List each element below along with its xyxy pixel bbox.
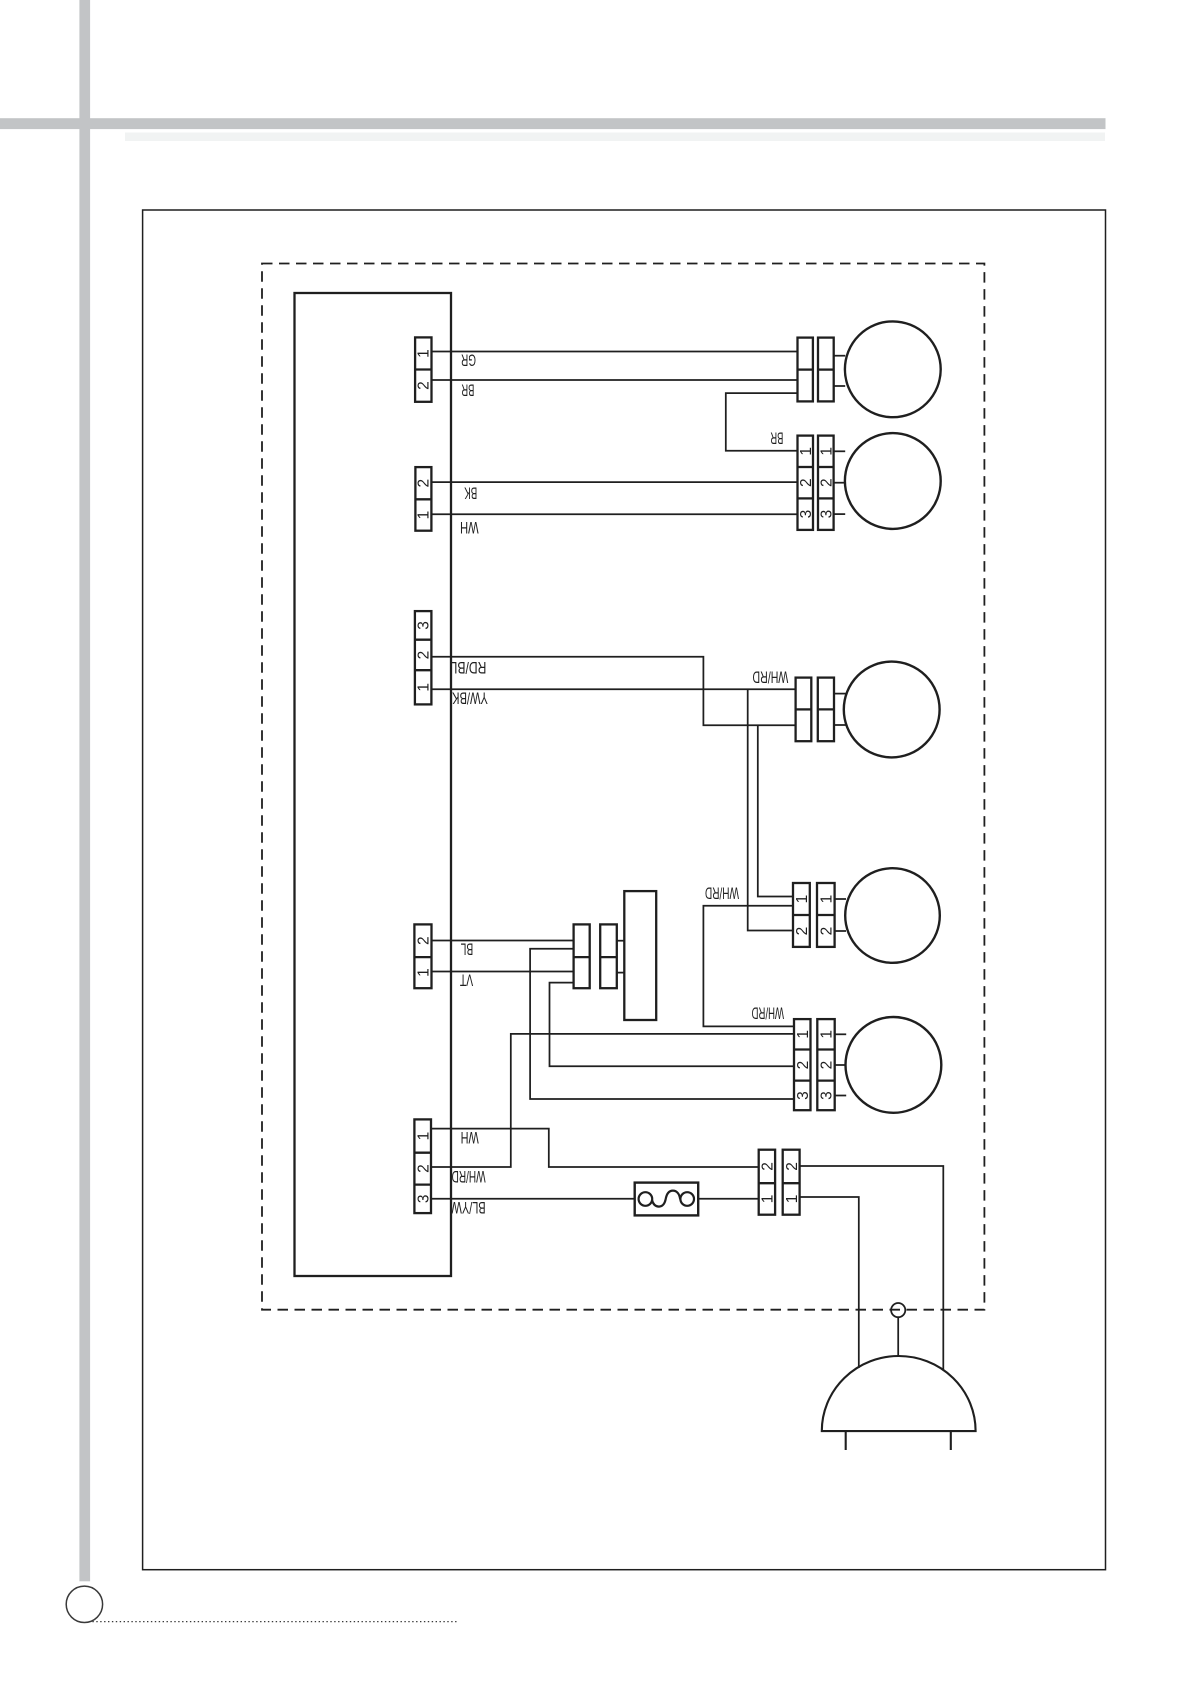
svg-text:1: 1 <box>416 1132 433 1141</box>
page margin gray vertical bar <box>79 0 90 1581</box>
connector M1 left half <box>798 338 813 402</box>
wire BL <box>432 940 574 942</box>
wire WH to mains connector <box>431 1129 759 1167</box>
wire M2 pin3 stub <box>834 513 846 515</box>
wire S1 pin2 stub <box>617 972 625 974</box>
wire branch pressure switch to motor M5 pin3 <box>530 949 794 1099</box>
svg-text:WH: WH <box>460 518 479 536</box>
wire WH/RD link motor M4 pin1 to motor M5 pin1 <box>703 906 794 1027</box>
svg-text:3: 3 <box>818 510 835 519</box>
motor M2 circle <box>845 433 941 529</box>
svg-text:1: 1 <box>798 447 815 456</box>
svg-text:1: 1 <box>795 1030 812 1039</box>
connector CN5 on controller (3-pin) <box>414 1119 431 1213</box>
svg-text:GR: GR <box>461 350 476 368</box>
svg-text:2: 2 <box>818 478 835 487</box>
wire earth stub to plug <box>897 1317 899 1356</box>
svg-text:WH/RD: WH/RD <box>752 667 788 685</box>
wire M1 pin2 stub <box>834 385 846 387</box>
scan ghost strip <box>125 133 1105 142</box>
wire RD/BL <box>431 657 795 725</box>
svg-text:1: 1 <box>760 1195 777 1204</box>
wire WH to motor M2 <box>431 513 797 515</box>
svg-text:WH/RD: WH/RD <box>752 1004 785 1022</box>
svg-text:3: 3 <box>416 621 433 630</box>
svg-text:1: 1 <box>818 895 835 904</box>
svg-text:1: 1 <box>416 349 433 358</box>
svg-text:2: 2 <box>416 479 433 488</box>
svg-text:1: 1 <box>794 895 811 904</box>
wire M5 pin1 stub <box>835 1033 847 1035</box>
wire VT <box>432 971 574 973</box>
wire M2 pin1 stub <box>834 450 846 452</box>
motor M1 circle <box>845 321 941 417</box>
mains connector CN6 right half (2-pin) <box>783 1150 800 1215</box>
connector M2 right half <box>818 436 834 530</box>
svg-text:RD/BL: RD/BL <box>451 658 487 676</box>
svg-text:BR: BR <box>770 429 783 447</box>
svg-text:2: 2 <box>760 1162 777 1171</box>
wire branch from RD/BL down to motor M4 pin1 <box>758 725 793 896</box>
svg-text:3: 3 <box>798 510 815 519</box>
wire BR branch to motor M2 pin1 <box>726 393 798 451</box>
svg-text:1: 1 <box>416 683 433 692</box>
wire M1 pin1 stub <box>834 355 846 357</box>
svg-text:2: 2 <box>416 936 433 945</box>
wire BL/YW to fuse <box>431 1198 635 1200</box>
connector S1 right half <box>600 924 617 988</box>
wire branch pressure switch to motor M5 pin2 <box>550 983 795 1067</box>
wire M4 pin1 stub <box>835 898 846 900</box>
svg-text:1: 1 <box>819 1030 836 1039</box>
svg-text:2: 2 <box>416 651 433 660</box>
svg-text:VT: VT <box>460 971 473 989</box>
connector M4 right half <box>817 883 835 947</box>
svg-text:1: 1 <box>784 1195 801 1204</box>
svg-text:2: 2 <box>784 1162 801 1171</box>
plug P1 left prong <box>845 1431 847 1450</box>
svg-text:2: 2 <box>818 927 835 936</box>
motor M4 circle <box>845 868 940 963</box>
bottom dotted leader line <box>92 1621 457 1623</box>
connector M4 left half <box>793 883 810 947</box>
wire CN6 pin1 to plug left <box>800 1197 859 1368</box>
svg-text:3: 3 <box>819 1091 836 1100</box>
svg-text:1: 1 <box>416 511 433 520</box>
motor M3 circle <box>844 662 940 758</box>
dashed enclosure (appliance boundary) <box>262 264 984 1310</box>
wire M3 pin2 stub <box>834 724 847 726</box>
svg-text:BL/YW: BL/YW <box>451 1198 485 1216</box>
connector M1 right half <box>818 338 834 402</box>
svg-text:2: 2 <box>416 1164 433 1173</box>
svg-text:BK: BK <box>464 484 477 502</box>
svg-text:2: 2 <box>416 381 433 390</box>
motor M5 circle <box>846 1017 942 1113</box>
connector M5 left half <box>794 1019 811 1110</box>
connector CN4 on controller (2-pin) <box>414 924 431 988</box>
wire fuse to mains connector <box>698 1198 759 1200</box>
wire M2 pin2 stub <box>834 482 846 484</box>
svg-text:WH/RD: WH/RD <box>451 1167 485 1185</box>
wire S1 pin1 stub <box>617 940 625 942</box>
connector CN1 on controller (2-pin) <box>415 337 431 401</box>
mains connector CN6 left half (2-pin) <box>759 1150 775 1215</box>
wire branch from YW/BK down to motor M4 pin2 <box>748 689 793 930</box>
connector CN3 on controller (3-pin) <box>415 611 432 704</box>
fuse F1 <box>635 1183 699 1216</box>
page margin gray horizontal bar <box>0 118 1106 129</box>
power plug P1 dome <box>822 1356 976 1431</box>
connector S1 left half <box>574 924 590 988</box>
earth node circle on enclosure boundary <box>891 1303 905 1317</box>
svg-text:BL: BL <box>461 940 474 958</box>
svg-text:3: 3 <box>795 1091 812 1100</box>
wire CN6 pin2 to plug right <box>800 1166 944 1371</box>
svg-text:2: 2 <box>819 1061 836 1070</box>
pressure switch S1 body <box>624 891 656 1020</box>
wire M5 pin2 stub <box>835 1064 847 1066</box>
wire M4 pin2 stub <box>835 930 846 932</box>
wire M5 pin3 stub <box>835 1095 847 1097</box>
svg-text:WH/RD: WH/RD <box>705 884 739 902</box>
connector CN2 on controller (2-pin) <box>415 467 431 531</box>
svg-text:YW/BK: YW/BK <box>452 688 488 706</box>
wire YW/BK <box>431 688 795 690</box>
wire M3 pin1 stub <box>834 693 846 695</box>
wire WH/RD up to motor M5 pin1 <box>431 1034 794 1167</box>
svg-text:2: 2 <box>794 927 811 936</box>
controller (main PCB) box <box>295 293 452 1276</box>
wire BK <box>431 481 797 483</box>
svg-text:BR: BR <box>461 381 474 399</box>
plug P1 right prong <box>950 1431 952 1450</box>
wire GR <box>432 351 798 353</box>
outer border frame <box>143 210 1106 1570</box>
svg-text:1: 1 <box>818 447 835 456</box>
connector M3 right half <box>818 678 834 742</box>
bottom-left reference circle <box>66 1586 102 1622</box>
connector M5 right half <box>817 1019 834 1110</box>
svg-text:WH: WH <box>461 1128 479 1146</box>
svg-text:1: 1 <box>416 968 433 977</box>
connector M3 left half <box>796 678 812 742</box>
svg-text:3: 3 <box>416 1194 433 1203</box>
svg-text:2: 2 <box>798 478 815 487</box>
connector M2 left half <box>798 436 814 530</box>
wire BR <box>432 379 798 381</box>
svg-text:2: 2 <box>795 1061 812 1070</box>
